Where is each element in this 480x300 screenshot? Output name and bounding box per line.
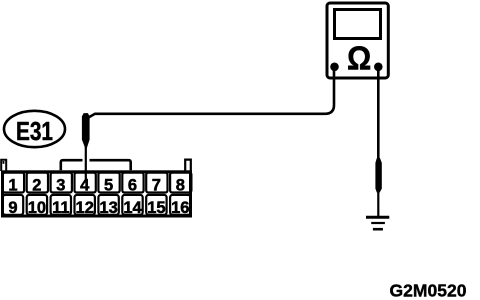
svg-text:4: 4 xyxy=(80,177,90,195)
ground symbol xyxy=(366,217,389,229)
svg-text:G2M0520: G2M0520 xyxy=(390,281,467,300)
probe P2 on ground lead xyxy=(376,159,381,193)
connector left tab xyxy=(1,160,6,171)
svg-text:9: 9 xyxy=(8,199,17,217)
wire from left terminal to probe xyxy=(89,67,334,117)
svg-text:13: 13 xyxy=(99,199,117,217)
svg-text:Ω: Ω xyxy=(347,39,371,77)
multimeter display xyxy=(335,10,381,39)
connector left tab tick xyxy=(3,161,5,164)
connector right tab xyxy=(185,160,191,171)
pin cells row 1 (pins 1-8) xyxy=(3,173,192,193)
svg-text:5: 5 xyxy=(104,177,113,195)
probe P1 in pin 4 xyxy=(82,114,89,149)
terminal right xyxy=(374,63,383,72)
svg-text:7: 7 xyxy=(152,177,161,195)
svg-text:16: 16 xyxy=(171,199,189,217)
connector J1 housing outline xyxy=(3,172,191,216)
connector top bump xyxy=(61,160,131,170)
terminal left xyxy=(330,63,339,72)
svg-text:11: 11 xyxy=(52,199,69,217)
svg-text:1: 1 xyxy=(8,177,17,195)
svg-text:2: 2 xyxy=(32,177,41,195)
svg-text:14: 14 xyxy=(123,199,142,217)
pin cells row 2 (pins 9-16) xyxy=(3,195,191,215)
multimeter U1 body xyxy=(327,3,388,78)
svg-text:3: 3 xyxy=(56,177,65,195)
svg-text:8: 8 xyxy=(176,177,185,195)
wire from right terminal down xyxy=(377,67,380,163)
svg-text:E31: E31 xyxy=(16,118,53,146)
svg-text:6: 6 xyxy=(128,177,137,195)
pin numbers 1-8 xyxy=(8,177,184,195)
connector label E31 oval xyxy=(4,111,65,147)
wire probe P2 to ground xyxy=(377,191,379,217)
probe P1 needle xyxy=(85,147,87,181)
svg-text:10: 10 xyxy=(28,199,46,217)
pin numbers 9-16 xyxy=(8,199,189,217)
svg-text:12: 12 xyxy=(76,199,94,217)
svg-text:15: 15 xyxy=(147,199,165,217)
